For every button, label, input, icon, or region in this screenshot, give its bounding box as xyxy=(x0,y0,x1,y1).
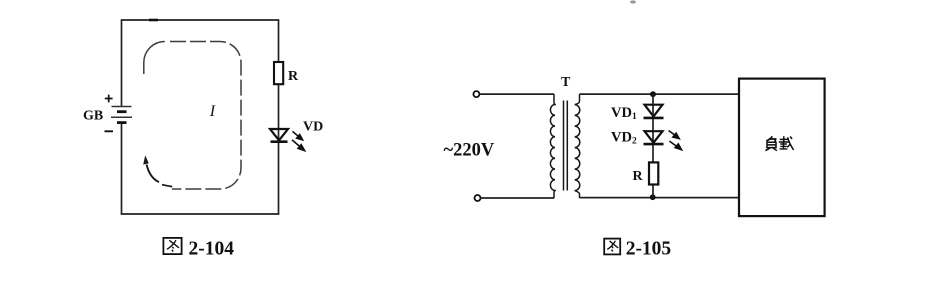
svg-text:2-105: 2-105 xyxy=(626,239,672,260)
svg-text:GB: GB xyxy=(83,108,103,123)
svg-text:T: T xyxy=(561,75,571,90)
svg-text:VD2: VD2 xyxy=(611,130,637,147)
svg-text:VD: VD xyxy=(303,120,323,135)
svg-text:R: R xyxy=(633,169,644,184)
svg-text:R: R xyxy=(288,69,299,84)
svg-text:2-104: 2-104 xyxy=(189,239,235,260)
svg-text:VD1: VD1 xyxy=(611,105,637,122)
svg-text:I: I xyxy=(209,103,216,120)
svg-text:~220V: ~220V xyxy=(444,141,495,161)
